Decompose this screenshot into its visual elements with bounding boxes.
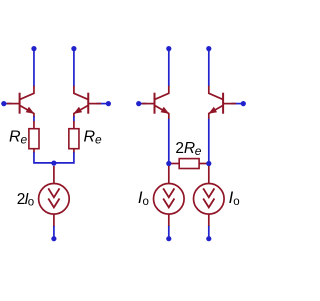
transistor Q4 (NPN, base on right, mirrored) [208,86,236,120]
current source I3 (Io, right) [194,166,225,227]
svg-text:o: o [143,196,149,208]
svg-text:e: e [195,144,202,158]
wire: Q2 emitter to resistor R2 [73,116,75,121]
current source I2 (Io, left) [154,166,185,227]
resistor R2 (Re, right) [69,121,79,153]
wire: Q2 collector wire (top, second vertical) [73,49,75,87]
wire: Q4 collector wire [208,49,210,87]
svg-text:R: R [184,140,195,157]
node: bottom terminal dot (left circuit) [51,236,56,241]
wire: Q1 base wire [4,103,12,105]
transistor Q3 (NPN, base on left) [142,86,170,120]
svg-text:R: R [9,129,21,146]
node: Q4 base terminal dot [241,101,246,106]
node: Q3 base terminal dot [136,101,141,106]
node: left emitter junction dot [166,161,171,166]
wire: Q3 base wire [139,103,147,105]
node: tail junction dot [51,161,56,166]
wire: Q4 base wire [231,103,243,105]
svg-text:e: e [21,133,28,147]
svg-text:o: o [28,197,34,209]
wire: Q4 emitter down to right junction [208,119,210,164]
node: right emitter junction dot [206,161,211,166]
wire: I3 to bottom terminal [208,226,210,239]
wire: Q1 emitter to resistor R1 [33,116,35,121]
svg-text:e: e [95,133,102,147]
svg-text:o: o [233,196,239,208]
wire: Q1 collector wire (top left vertical) [33,49,35,87]
wire: tail source to bottom terminal [53,226,55,239]
node: Q2 base terminal dot [106,101,111,106]
node: top-left terminal dot [31,46,36,51]
transistor Q1 (NPN, base on left) [7,86,35,117]
node: bottom terminal dot (right circuit, right) [206,236,211,241]
resistor R1 (Re, left) [29,121,39,153]
wire: R1 bottom to tail junction [34,152,54,163]
node: top terminal dot 2 [71,46,76,51]
wire: I2 to bottom terminal [168,226,170,239]
svg-text:2: 2 [175,140,184,157]
wire: Q3 emitter down to left junction [168,119,170,164]
resistor R3 (2Re bridge, horizontal) [169,159,209,169]
node: Q1 base terminal dot [1,101,6,106]
current source I1 (2Io tail source) [39,166,70,227]
node: top terminal dot 3 [166,46,171,51]
svg-text:R: R [84,129,96,146]
node: bottom terminal dot (right circuit, left) [166,236,171,241]
wire: Q2 base wire [97,103,109,105]
transistor Q2 (NPN, base on right, mirrored) [73,86,101,117]
wire: R2 bottom to tail junction [54,152,74,163]
node: top terminal dot 4 [206,46,211,51]
wire: Q3 collector wire [168,49,170,87]
